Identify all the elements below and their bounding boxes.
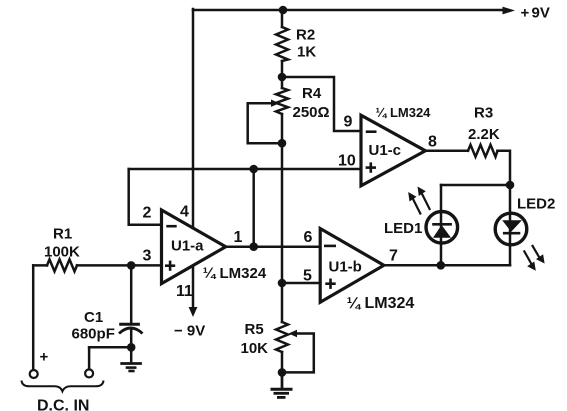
svg-text:R1: R1 — [53, 226, 72, 243]
svg-text:R4: R4 — [302, 85, 322, 102]
svg-text:9V: 9V — [532, 5, 550, 22]
svg-text:10K: 10K — [241, 340, 269, 357]
svg-text:¼ LM324: ¼ LM324 — [347, 295, 415, 312]
svg-text:LED2: LED2 — [517, 196, 555, 213]
svg-text:1K: 1K — [297, 44, 316, 61]
svg-text:680pF: 680pF — [72, 326, 115, 343]
svg-text:C1: C1 — [84, 309, 103, 326]
svg-text:+: + — [521, 5, 530, 22]
svg-text:− 9V: − 9V — [174, 323, 205, 340]
svg-text:3: 3 — [143, 248, 152, 265]
svg-text:R5: R5 — [245, 321, 264, 338]
svg-text:2: 2 — [143, 205, 152, 222]
svg-text:6: 6 — [304, 229, 313, 246]
svg-text:9: 9 — [344, 114, 353, 131]
svg-text:U1-b: U1-b — [329, 259, 362, 276]
svg-text:U1-a: U1-a — [171, 238, 204, 255]
svg-text:R3: R3 — [474, 105, 493, 122]
svg-text:7: 7 — [389, 248, 398, 265]
svg-text:¼ LM324: ¼ LM324 — [203, 265, 267, 282]
svg-text:8: 8 — [428, 134, 437, 151]
svg-text:2.2K: 2.2K — [468, 126, 500, 143]
svg-text:5: 5 — [303, 268, 312, 285]
svg-text:100K: 100K — [44, 244, 80, 261]
svg-text:¼ LM324: ¼ LM324 — [376, 105, 432, 120]
svg-text:11: 11 — [176, 283, 193, 300]
svg-text:U1-c: U1-c — [369, 142, 402, 159]
svg-text:250Ω: 250Ω — [293, 104, 330, 121]
svg-text:R2: R2 — [296, 27, 315, 44]
svg-text:4: 4 — [180, 204, 189, 221]
svg-text:1: 1 — [234, 229, 243, 246]
svg-text:LED1: LED1 — [384, 220, 422, 237]
svg-text:D.C. IN: D.C. IN — [37, 398, 89, 411]
svg-text:10: 10 — [338, 153, 356, 170]
svg-text:+: + — [40, 349, 49, 366]
